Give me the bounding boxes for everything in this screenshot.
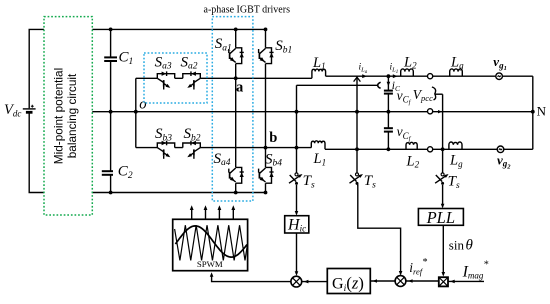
current arrow iC (387, 82, 391, 87)
summer circle x1 (SPWM input) (291, 276, 302, 287)
svg-text:Gi(z): Gi(z) (332, 273, 364, 294)
transistor Sb2 (183, 143, 201, 148)
svg-text:Mid-point potential: Mid-point potential (52, 68, 66, 164)
inductor L2 (bottom) (406, 142, 417, 149)
svg-text:PLL: PLL (426, 208, 455, 227)
control row wires (212, 274, 291, 281)
filter capacitor vertical x=388.4 (387, 76, 389, 149)
svg-text:o: o (139, 96, 146, 112)
svg-text:sinθ: sinθ (449, 237, 474, 253)
right edge vertical (532, 76, 534, 149)
transistor Sb1 (266, 48, 272, 64)
sense vertical x=357 (357, 76, 401, 273)
terminal circle top row (428, 74, 433, 79)
svg-text:SPWM: SPWM (197, 259, 223, 269)
node o bus / N bus horizontal (92, 111, 533, 113)
battery Vdc (23, 108, 36, 110)
blue dashed box around Sa3/Sa2 (144, 53, 207, 103)
SPWM box (173, 219, 248, 270)
measurement line with open arrowhead (iC sense) (297, 84, 378, 86)
phase b row (136, 147, 311, 149)
inductor L1 (bottom) (311, 141, 325, 149)
sampling switch Ts (x=442.6) (441, 173, 444, 176)
current arrow iLa (362, 74, 367, 78)
capacitor C1 (104, 56, 117, 58)
wire: top DC+ rail (29, 28, 267, 30)
svg-text:b: b (269, 130, 277, 146)
sampling switch Ts (x=296.5) (295, 173, 298, 176)
sense vertical x=296.5 (Hic feedback) (296, 85, 298, 213)
summer circle x2 (395, 276, 406, 287)
terminal circle b row (428, 147, 433, 152)
grid source vg2 (497, 146, 504, 153)
PLL box (418, 209, 463, 226)
transistor Sa3 (157, 74, 174, 79)
inductor Lg (bottom) (449, 142, 462, 149)
wire: bottom DC- rail (29, 192, 267, 194)
svg-text:a-phase IGBT drivers: a-phase IGBT drivers (204, 5, 291, 16)
gate drive arrows (191, 207, 193, 219)
transistor Sa4 (236, 167, 242, 183)
grid source vg1 (496, 73, 503, 80)
svg-text:a: a (236, 80, 244, 96)
transistor Sb4 (266, 167, 272, 183)
phase a row (136, 77, 312, 79)
transistor Sa2 (183, 74, 201, 79)
transistor Sb3 (157, 143, 174, 148)
wire: left DC link vertical from battery (28, 29, 30, 192)
Vpcc brace arrow (432, 87, 436, 100)
Hic box (285, 216, 309, 233)
branch vertical joining o bus to a-row and b-row (135, 78, 137, 147)
terminal circle N bus (428, 109, 433, 114)
sampling switch Ts (x=357) (356, 173, 359, 176)
svg-text:N: N (537, 104, 547, 119)
current arrow iL1 (393, 74, 398, 78)
inductor L2 (top) (401, 69, 414, 76)
inductor L1 (top) (312, 69, 326, 78)
junction dots (109, 28, 113, 32)
capacitor Cf (top) (384, 90, 393, 92)
Gi(z) box (327, 269, 370, 294)
inductor Lg (top) (450, 69, 463, 76)
IGBT leg Sa (vertical x=235.7) (235, 29, 237, 192)
multiplier box (439, 277, 448, 286)
green dashed box: mid-point balancing circuit (44, 17, 92, 215)
small arrow on N bus at x=442.6 (438, 110, 442, 113)
sense vertical x=442.6 (PLL input) (442, 94, 444, 206)
capacitor C2 (102, 170, 113, 172)
blue dashed box a-phase IGBT drivers (212, 17, 253, 201)
transistor Sa1 (236, 48, 242, 64)
capacitor Cf (bottom) (384, 127, 393, 129)
capacitor bus vertical (110, 29, 112, 192)
up arrow at a-row tap x=357 (354, 77, 361, 81)
IGBT leg Sb (vertical x=265.5) (265, 29, 267, 192)
svg-text:balancing circuit: balancing circuit (65, 73, 79, 158)
